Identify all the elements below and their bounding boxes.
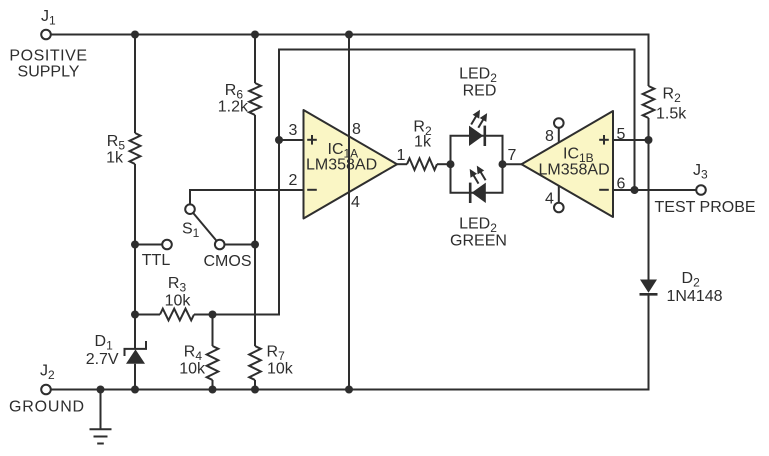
svg-text:POSITIVE: POSITIVE	[9, 48, 87, 65]
wire R2 1.5k bottom to pin5 node and D2 anode	[648, 118, 650, 280]
label LED2 RED	[459, 66, 497, 100]
zener diode D1 body	[126, 349, 145, 363]
label IC1B minus input	[599, 189, 609, 191]
wire IC1B pin6 to J3	[613, 189, 696, 191]
LED LED2 green emission arrows	[470, 166, 486, 184]
svg-text:8: 8	[545, 128, 554, 145]
LED LED2 green body	[472, 183, 486, 203]
wire R2 to LED bridge	[437, 163, 451, 165]
label R7 value 10k	[267, 344, 294, 378]
svg-text:10k: 10k	[267, 361, 294, 378]
resistor R6	[249, 83, 261, 115]
svg-text:1N4148: 1N4148	[667, 288, 723, 305]
svg-text:D2: D2	[682, 270, 701, 290]
resistor R2 1k	[407, 158, 437, 170]
wire ground rail	[51, 295, 649, 390]
wire R3 node to IC1A pin3 riser	[213, 140, 280, 315]
label D2 value 1N4148	[667, 270, 723, 305]
switch S1 pivot terminal	[185, 204, 195, 214]
label IC1A pin 3	[289, 122, 298, 139]
svg-text:4: 4	[545, 191, 554, 208]
ground symbol	[90, 390, 112, 444]
wire TTL contact to R5 line	[135, 244, 162, 246]
label TTL	[142, 252, 171, 269]
svg-text:1.5k: 1.5k	[656, 106, 687, 123]
connector J2	[41, 385, 51, 395]
label IC1B pin 6	[617, 176, 626, 193]
junction R3 left / D1 node	[131, 311, 139, 319]
label TEST PROBE	[655, 199, 756, 216]
junction TTL tap on R5 line	[131, 241, 139, 249]
svg-text:J3: J3	[693, 162, 708, 182]
wire CMOS contact to R6 line	[225, 244, 256, 246]
label R3 value 10k	[165, 275, 192, 310]
junction ground rail / R7	[251, 386, 259, 394]
wire IC1A pin2 to S1 pivot	[190, 190, 304, 204]
wire positive supply top rail	[51, 35, 649, 87]
label IC1B plus input	[599, 135, 609, 145]
label S1	[182, 221, 200, 241]
svg-text:TEST PROBE: TEST PROBE	[655, 199, 756, 216]
junction CMOS tap on R6 line	[251, 241, 259, 249]
label POSITIVE SUPPLY	[9, 48, 87, 81]
wire IC1A output to R2	[397, 163, 407, 165]
junction supply rail / R6	[251, 31, 259, 39]
label IC1A pin 8	[352, 121, 361, 138]
connector J3	[696, 185, 706, 195]
wire D1 cathode-bar to ground rail	[134, 364, 136, 390]
LED LED2 green cathode bar	[469, 183, 472, 203]
svg-text:7: 7	[508, 147, 517, 164]
svg-text:LM358AD: LM358AD	[306, 157, 377, 174]
label IC1B pin 7	[508, 147, 517, 164]
junction ground rail / R4	[209, 386, 217, 394]
label IC1A pin 1	[397, 147, 406, 164]
junction ground rail / earth symbol	[97, 386, 105, 394]
svg-text:CMOS: CMOS	[204, 253, 252, 270]
junction IC1A pin3 node	[275, 136, 283, 144]
wire feedback pin3 node to IC1B pin6 node	[279, 50, 635, 191]
switch S1 arm	[193, 213, 216, 241]
label J2	[40, 363, 55, 383]
label IC1B pin 5	[617, 126, 626, 143]
svg-text:8: 8	[352, 121, 361, 138]
op-amp IC1B	[522, 111, 614, 217]
zener diode D1 bar	[125, 341, 147, 356]
label IC1A	[306, 141, 377, 174]
wire R5 branch from supply rail	[134, 35, 136, 134]
label IC1A plus input	[307, 135, 317, 145]
resistor R7	[249, 346, 261, 380]
label IC1B pin 8	[545, 128, 554, 145]
junction IC1B pin6 / feedback	[631, 186, 639, 194]
diode D2 body	[640, 280, 657, 293]
label J1	[41, 8, 56, 28]
diode D2 cathode bar	[640, 293, 658, 296]
wire IC1A supply pins 8-4 rail-to-ground	[348, 35, 350, 390]
svg-text:SUPPLY: SUPPLY	[18, 64, 80, 81]
wire LED bridge frame	[451, 136, 503, 193]
wire R6 to CMOS tap and R7	[254, 115, 256, 346]
svg-text:LM358AD: LM358AD	[539, 162, 610, 179]
LED LED2 red emission arrows	[471, 110, 487, 128]
junction ground rail / IC1A pin4 line	[345, 386, 353, 394]
svg-text:1: 1	[397, 147, 406, 164]
junction supply rail / R5	[131, 31, 139, 39]
svg-text:GREEN: GREEN	[450, 233, 507, 250]
label IC1B	[539, 146, 610, 179]
junction IC1B pin5 / R2 1.5k / D2	[645, 136, 653, 144]
op-amp IC1A	[304, 110, 398, 219]
connector J1	[41, 30, 51, 40]
svg-text:3: 3	[289, 122, 298, 139]
svg-text:J2: J2	[40, 363, 55, 383]
resistor R2 1.5k	[643, 86, 655, 118]
label D1 value 2.7V	[86, 333, 119, 368]
LED LED2 red cathode bar	[483, 126, 486, 146]
label GROUND	[9, 399, 85, 416]
label R6 value 1.2k	[218, 82, 249, 116]
svg-text:10k: 10k	[179, 361, 206, 378]
label R5 value 1k	[106, 133, 125, 167]
label J3	[693, 162, 708, 182]
wire R4 to ground rail	[212, 380, 214, 390]
wire R6 branch from supply rail	[254, 35, 256, 84]
resistor R3	[135, 309, 213, 321]
wire IC1B pin5 to R2/D2 node	[613, 139, 649, 141]
svg-text:4: 4	[351, 194, 360, 211]
terminal IC1B pin8 stub	[554, 118, 564, 142]
label R2 value 1k	[413, 119, 432, 151]
svg-text:6: 6	[617, 176, 626, 193]
wire LED bridge to IC1B pin7	[503, 163, 522, 165]
junction supply rail / IC1A pin8 line	[345, 31, 353, 39]
svg-text:5: 5	[617, 126, 626, 143]
svg-text:S1: S1	[182, 221, 200, 241]
svg-text:1k: 1k	[414, 134, 432, 151]
svg-text:TTL: TTL	[142, 252, 171, 269]
junction LED bridge left	[447, 160, 455, 168]
svg-text:GROUND: GROUND	[9, 399, 85, 416]
terminal IC1B pin4 stub	[554, 186, 564, 212]
LED LED2 red body	[469, 126, 483, 146]
resistor R5	[130, 133, 141, 164]
wire R4 top stub	[212, 315, 214, 347]
label CMOS	[204, 253, 252, 270]
label IC1A pin 4	[351, 194, 360, 211]
junction ground rail / D1	[131, 386, 139, 394]
label IC1B pin 4	[545, 191, 554, 208]
svg-text:R2: R2	[663, 86, 682, 106]
terminal TTL contact	[162, 240, 172, 250]
terminal CMOS contact	[215, 240, 225, 250]
svg-text:J1: J1	[41, 8, 56, 28]
label LED2 GREEN	[450, 216, 507, 250]
junction LED bridge right	[499, 160, 507, 168]
junction R3 right / R4 node	[209, 311, 217, 319]
svg-text:2: 2	[289, 172, 298, 189]
wire R7 to ground rail	[254, 380, 256, 390]
svg-text:2.7V: 2.7V	[86, 351, 119, 368]
svg-text:RED: RED	[463, 83, 497, 100]
label IC1A minus input	[307, 189, 317, 191]
svg-text:1.2k: 1.2k	[218, 99, 249, 116]
svg-text:10k: 10k	[165, 293, 192, 310]
label IC1A pin 2	[289, 172, 298, 189]
svg-text:1k: 1k	[106, 150, 124, 167]
label R4 value 10k	[179, 344, 206, 378]
resistor R4	[207, 346, 219, 380]
wire IC1A pin3 input	[279, 139, 304, 141]
label R2 value 1.5k	[656, 86, 687, 123]
wire R5 to TTL tap, R3 node and D1	[134, 164, 136, 349]
svg-text:D1: D1	[95, 333, 114, 353]
